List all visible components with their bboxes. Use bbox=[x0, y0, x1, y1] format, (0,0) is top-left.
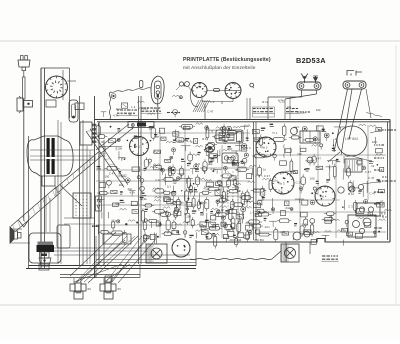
svg-text:L 4: L 4 bbox=[317, 187, 321, 191]
svg-text:L 4: L 4 bbox=[293, 171, 297, 175]
svg-text:2,2k: 2,2k bbox=[201, 200, 207, 204]
svg-text:4N: 4N bbox=[117, 287, 121, 291]
svg-text:C 3: C 3 bbox=[111, 219, 116, 223]
svg-text:2,2k: 2,2k bbox=[155, 178, 161, 182]
svg-text:mit Anschlußplan der Einzeltei: mit Anschlußplan der Einzelteile bbox=[183, 65, 256, 71]
svg-text:10k: 10k bbox=[303, 222, 308, 226]
svg-text:22n: 22n bbox=[301, 110, 306, 114]
svg-text:PRINTPLATTE (Bestückungsseite): PRINTPLATTE (Bestückungsseite) bbox=[183, 57, 271, 63]
svg-text:C 47: C 47 bbox=[109, 172, 115, 176]
svg-text:0,22: 0,22 bbox=[121, 173, 127, 177]
svg-text:68k: 68k bbox=[115, 202, 120, 206]
svg-text:B2D53A: B2D53A bbox=[296, 56, 326, 65]
svg-text:22n: 22n bbox=[265, 225, 270, 229]
svg-text:JJC 1144: JJC 1144 bbox=[229, 238, 242, 242]
svg-text:22n: 22n bbox=[273, 178, 278, 182]
svg-text:C 47: C 47 bbox=[264, 174, 270, 178]
svg-text:C 47: C 47 bbox=[207, 110, 213, 114]
svg-text:10k: 10k bbox=[226, 228, 231, 232]
svg-text:100: 100 bbox=[117, 146, 122, 150]
svg-text:100: 100 bbox=[310, 177, 315, 181]
svg-text:4,7k: 4,7k bbox=[98, 140, 104, 144]
svg-text:2n2: 2n2 bbox=[285, 206, 290, 210]
svg-text:10k: 10k bbox=[119, 183, 124, 187]
svg-text:JJC B4: JJC B4 bbox=[254, 238, 264, 242]
svg-text:R 12: R 12 bbox=[218, 208, 224, 212]
svg-text:C 47: C 47 bbox=[368, 176, 374, 180]
svg-text:Rö 4: Rö 4 bbox=[321, 195, 327, 199]
svg-text:Rö 3: Rö 3 bbox=[279, 182, 285, 186]
svg-text:2,2k: 2,2k bbox=[143, 106, 149, 110]
svg-text:22n: 22n bbox=[236, 168, 241, 172]
svg-text:C 47: C 47 bbox=[365, 170, 371, 174]
svg-text:C 3: C 3 bbox=[348, 205, 353, 209]
svg-text:0,22: 0,22 bbox=[355, 210, 361, 214]
svg-text:L 4: L 4 bbox=[131, 105, 135, 109]
svg-text:LSP 604: LSP 604 bbox=[345, 137, 358, 141]
svg-text:C 47: C 47 bbox=[315, 156, 321, 160]
svg-text:L 4: L 4 bbox=[210, 100, 214, 104]
svg-text:0,1: 0,1 bbox=[167, 185, 171, 189]
svg-text:10k: 10k bbox=[316, 108, 321, 112]
svg-text:C 21: C 21 bbox=[279, 99, 285, 103]
svg-text:4N: 4N bbox=[87, 287, 91, 291]
svg-text:R 12: R 12 bbox=[262, 100, 268, 104]
svg-text:2,2k: 2,2k bbox=[141, 197, 147, 201]
svg-text:4,7k: 4,7k bbox=[129, 190, 135, 194]
svg-text:100: 100 bbox=[372, 140, 377, 144]
svg-text:100: 100 bbox=[186, 214, 191, 218]
svg-text:2n2: 2n2 bbox=[116, 107, 121, 111]
svg-text:1k: 1k bbox=[334, 137, 338, 141]
svg-text:1k: 1k bbox=[318, 137, 322, 141]
svg-text:L 4: L 4 bbox=[187, 139, 191, 143]
svg-text:R 12: R 12 bbox=[204, 186, 210, 190]
svg-text:4,7k: 4,7k bbox=[113, 114, 119, 118]
svg-text:Rö 2: Rö 2 bbox=[262, 146, 268, 150]
svg-text:100: 100 bbox=[104, 175, 109, 179]
svg-text:C 21: C 21 bbox=[153, 108, 159, 112]
svg-text:R 8: R 8 bbox=[121, 157, 126, 161]
svg-text:1k: 1k bbox=[263, 167, 267, 171]
svg-text:1k: 1k bbox=[329, 215, 333, 219]
svg-text:L 4: L 4 bbox=[250, 210, 254, 214]
svg-text:R 12: R 12 bbox=[348, 192, 354, 196]
svg-text:10k: 10k bbox=[286, 105, 291, 109]
svg-text:47: 47 bbox=[128, 113, 132, 117]
svg-text:Tr 1: Tr 1 bbox=[272, 131, 277, 135]
svg-text:10k: 10k bbox=[297, 152, 302, 156]
svg-text:R 8: R 8 bbox=[259, 192, 264, 196]
svg-text:R 8: R 8 bbox=[382, 175, 387, 179]
svg-text:■: ■ bbox=[342, 205, 344, 209]
svg-text:22n: 22n bbox=[280, 192, 285, 196]
svg-text:1k: 1k bbox=[371, 164, 375, 168]
svg-text:C 21: C 21 bbox=[295, 181, 301, 185]
svg-text:5k6: 5k6 bbox=[345, 154, 350, 158]
svg-text:0,1: 0,1 bbox=[191, 140, 195, 144]
svg-text:47: 47 bbox=[380, 199, 384, 203]
